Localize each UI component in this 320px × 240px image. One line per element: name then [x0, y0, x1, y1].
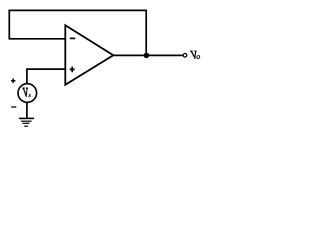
label Vs: [23, 88, 31, 97]
label Vo: [190, 51, 200, 59]
wire feedback loop: top, left, inverting-input segment: [9, 10, 146, 55]
source polarity -: [11, 106, 16, 108]
op-amp inverting pin label -: [70, 37, 75, 39]
junction output node: [144, 53, 150, 59]
wire output: [113, 54, 182, 56]
op-amp U1: [65, 25, 113, 85]
source polarity +: [11, 79, 15, 83]
ground: [19, 118, 34, 126]
wire non-inverting input: [27, 69, 65, 84]
wire source to ground: [26, 102, 28, 118]
op-amp non-inverting pin label +: [70, 67, 75, 73]
terminal Vo open circle: [183, 54, 187, 58]
voltage source VS circle: [18, 84, 37, 103]
